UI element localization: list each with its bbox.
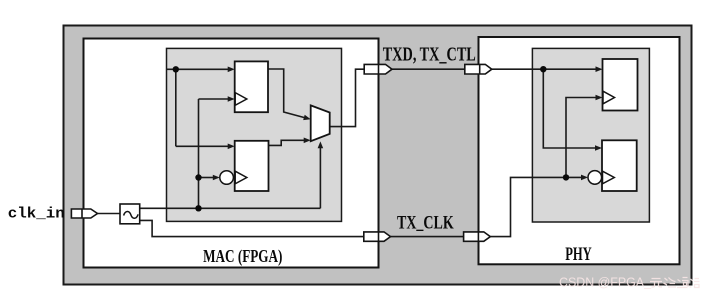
MAC (FPGA) block box [84,39,379,268]
inverting bubble on FF2 clock [220,171,234,185]
watermark hanzi 无线通信 (hand-drawn strokes) [650,278,700,288]
svg-text:TX_CLK: TX_CLK [397,212,454,233]
wire mux output to TXD port [330,69,365,126]
junction dot PHY clock net [563,174,569,180]
svg-text:MAC (FPGA): MAC (FPGA) [203,246,282,267]
PHY TX_CLK input port [464,232,491,241]
junction dot PHY data net [540,66,546,72]
wire data stub from region edge [167,68,176,70]
wire buffer to clock rail [140,207,321,209]
PHY input logic shaded region [532,48,649,222]
MAC TXD output port [364,64,392,74]
wire FF2 Q to mux input 1 [269,138,311,146]
wire clock to FF2 inverted clock bubble [199,175,220,181]
svg-text:TXD, TX_CTL: TXD, TX_CTL [383,44,476,66]
wire clock to FF1 clock pin [199,96,235,102]
wire FF1 Q to mux input 0 [268,69,311,120]
svg-text:PHY: PHY [565,245,592,265]
mux U1 [311,105,330,141]
wire mux select rising from rail [318,141,324,208]
wire TX_CLK between MAC and PHY ports [391,236,464,238]
MAC DDR output logic shaded region [167,48,342,221]
outer system frame [64,26,692,285]
svg-text:CSDN @FPGA_: CSDN @FPGA_ [559,275,652,290]
clk_in input port [71,209,97,218]
wire data to FF1 D input [176,67,235,73]
svg-text:clk_in: clk_in [8,207,65,223]
wire data vertical branch [175,69,177,146]
junction dot clock to FF2 [195,174,201,180]
wire buffer lower output to TX_CLK port [140,220,364,236]
wire PHY clock branch to FF3 clock pin [566,95,603,178]
wire data to FF2 D input [176,144,235,150]
flip-flop FF1 (MAC rising-edge) [235,61,268,112]
wire PHY TXD to FF3 D input [492,66,603,72]
PHY TXD input port [465,64,492,74]
wire TXD between MAC and PHY ports [392,68,465,70]
clock buffer with sine symbol [120,204,140,224]
junction dot data net [173,66,179,72]
wire PHY TX_CLK to FF4 bubble [490,175,588,237]
wire clock vertical distribution in MAC [198,99,200,208]
inverting bubble on FF4 clock [588,171,602,185]
junction dot clock rail [195,205,201,211]
wire clk_in port to buffer [98,213,121,215]
flip-flop FF3 (PHY rising-edge) [603,59,638,111]
MAC TX_CLK output port [364,232,391,241]
PHY block box [479,37,680,264]
flip-flop FF4 (PHY falling-edge) [602,140,637,191]
wire PHY TXD branch to FF4 D input [543,69,602,151]
flip-flop FF2 (MAC falling-edge) [235,141,269,191]
